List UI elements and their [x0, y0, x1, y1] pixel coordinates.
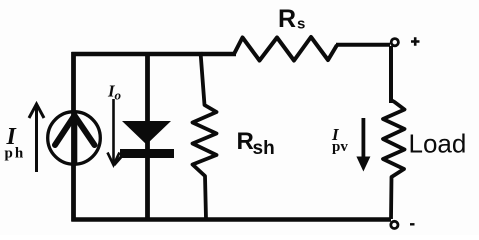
label I_ph with up arrow — [5, 104, 45, 172]
label Load — [409, 129, 467, 159]
resistor R_sh vertical zigzag branch — [193, 52, 217, 219]
svg-text:Load: Load — [409, 129, 467, 159]
label - — [410, 223, 415, 225]
svg-text:pv: pv — [332, 139, 348, 155]
svg-text:R: R — [278, 5, 296, 33]
label R_s — [278, 5, 305, 33]
label R_sh — [237, 128, 275, 159]
resistor Load vertical zigzag — [383, 100, 405, 219]
wire diode branch vertical — [145, 52, 150, 219]
resistor R_s horizontal zigzag (series) — [234, 37, 337, 61]
label I_pv with down arrow — [331, 118, 370, 172]
wire positive terminal down to load — [389, 46, 393, 103]
wire bottom horizontal (negative rail) — [72, 217, 392, 222]
wire from Rs to positive terminal — [336, 43, 390, 47]
negative terminal (open circle) — [391, 221, 398, 228]
positive terminal (open circle) — [391, 39, 398, 46]
svg-text:s: s — [297, 16, 305, 33]
label I_o with down arrow — [107, 82, 122, 166]
label + — [411, 37, 420, 45]
svg-text:sh: sh — [253, 138, 275, 159]
current source I_ph (circle with up arrow) — [48, 112, 101, 165]
wire left vertical (Iph branch) — [71, 52, 76, 222]
svg-text:ph: ph — [5, 146, 26, 162]
diode D1 (anode triangle + cathode bar) — [114, 121, 174, 165]
svg-text:o: o — [115, 88, 122, 103]
svg-text:R: R — [237, 128, 254, 155]
wire top-left horizontal (node between Iph/diode/Rsh and Rs) — [72, 52, 237, 56]
